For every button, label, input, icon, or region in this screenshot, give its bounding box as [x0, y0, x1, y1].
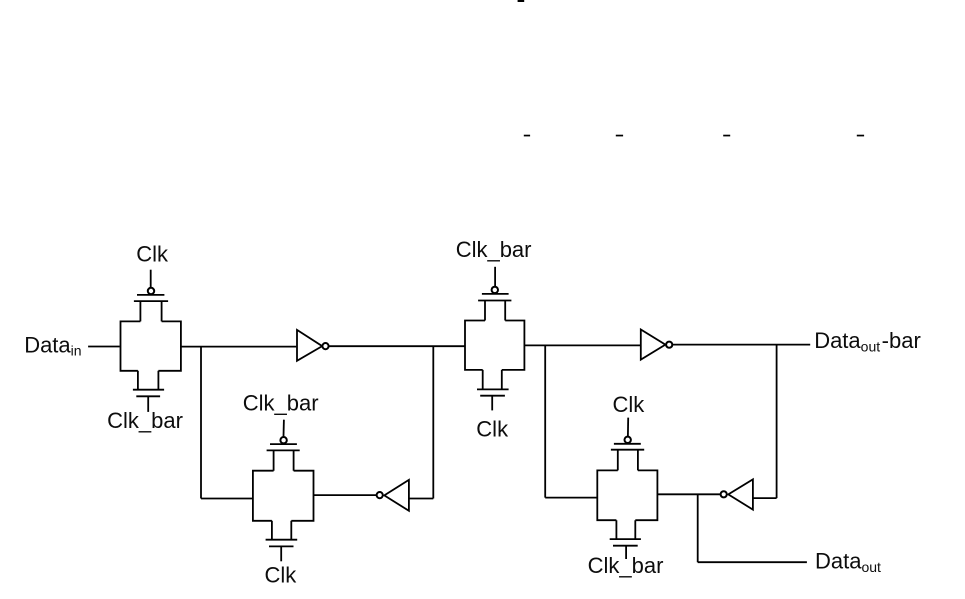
TG3 box	[465, 321, 524, 370]
TG1 Clk wire	[150, 270, 152, 287]
TG2 NMOS gate stub	[280, 546, 282, 561]
transmission gate TG4	[597, 418, 657, 559]
svg-text:Clk_bar: Clk_bar	[456, 237, 532, 262]
TG3 gate bubble	[492, 287, 498, 293]
wire feedback drop V2	[432, 346, 434, 498]
TG4 PMOS gate bar	[614, 443, 641, 445]
U4 bubble	[721, 491, 727, 497]
TG4 NMOS gate stub	[625, 546, 627, 559]
TG2 box	[253, 471, 314, 521]
transmission gate TG1	[121, 270, 181, 412]
U1 triangle	[297, 330, 322, 361]
wire Data_out lead	[698, 561, 807, 563]
wire TG3 to inverter U2	[524, 344, 640, 346]
TG1 NMOS legs	[138, 371, 159, 390]
TG1 box	[121, 321, 181, 370]
TG1 PMOS legs	[140, 301, 161, 321]
TG4 PMOS legs	[618, 450, 638, 471]
svg-text:Clk_bar: Clk_bar	[243, 390, 319, 415]
TG4 NMOS gate bar	[613, 545, 638, 547]
wire Data_in lead	[88, 346, 120, 348]
inverter U3	[377, 480, 409, 511]
U3 bubble	[377, 492, 383, 498]
wire TG4 to U4 bubble	[657, 493, 720, 495]
TG3 PMOS legs	[485, 301, 505, 321]
inverter U2	[641, 330, 673, 360]
wire V1 to TG2	[201, 498, 253, 500]
svg-text:Dataout-bar: Dataout-bar	[814, 328, 921, 354]
svg-text:Clk: Clk	[613, 392, 646, 417]
U2 bubble	[666, 342, 672, 348]
TG3 NMOS channel bar	[477, 388, 509, 390]
svg-text:Clk: Clk	[476, 417, 509, 442]
TG3 PMOS channel bar	[478, 300, 511, 302]
svg-text:Clk: Clk	[265, 562, 298, 587]
U1 bubble	[322, 343, 328, 349]
TG2 PMOS legs	[274, 450, 294, 470]
svg-text:Dataout: Dataout	[815, 548, 881, 574]
TG2 NMOS gate bar	[269, 545, 294, 547]
TG1 PMOS gate bar	[137, 294, 164, 296]
TG2 NMOS channel bar	[266, 539, 298, 541]
wire TG1 to inverter U1	[181, 346, 296, 348]
wire U3 input	[409, 498, 433, 500]
svg-text:Clk: Clk	[136, 242, 169, 267]
TG2 gate bubble	[280, 437, 286, 443]
TG1 NMOS channel bar	[133, 389, 164, 391]
wire TG2 to U3 bubble	[314, 494, 377, 496]
TG1 NMOS gate stub	[147, 396, 149, 412]
inverter U4	[721, 479, 753, 509]
TG4 box	[597, 470, 657, 520]
TG1 gate bubble	[148, 288, 154, 294]
U2 triangle	[641, 330, 666, 360]
wire U4 input	[753, 497, 777, 499]
TG3 NMOS legs	[483, 370, 502, 390]
TG3 NMOS gate bar	[480, 395, 505, 397]
TG3 NMOS gate stub	[491, 396, 493, 411]
transmission gate TG2	[253, 420, 314, 562]
transmission gate TG3	[465, 267, 524, 411]
wire feedback drop V1	[200, 347, 202, 499]
U4 triangle	[728, 479, 753, 509]
wire feedback drop V4	[776, 345, 778, 499]
wire Data_out drop	[697, 494, 699, 562]
TG2 NMOS legs	[272, 521, 291, 540]
cropped text fragment top	[518, 0, 525, 2]
TG3 PMOS gate bar	[482, 293, 509, 295]
wire feedback drop V3	[544, 345, 546, 497]
svg-text:Clk_bar: Clk_bar	[588, 553, 664, 578]
TG4 NMOS channel bar	[610, 538, 641, 540]
wire U2 to Data_out-bar	[672, 344, 810, 346]
wire U1 to TG3	[329, 345, 465, 347]
overbar dash 2	[616, 135, 623, 137]
svg-text:Datain: Datain	[24, 332, 81, 358]
wire V3 to TG4	[545, 497, 597, 499]
inverter U1	[297, 330, 329, 361]
TG3 Clk_bar wire	[494, 267, 496, 286]
TG2 PMOS gate bar	[270, 443, 297, 445]
svg-text:Clk_bar: Clk_bar	[107, 408, 183, 433]
overbar dash 3	[723, 135, 730, 137]
TG4 PMOS channel bar	[611, 449, 644, 451]
U3 triangle	[384, 480, 409, 511]
TG4 Clk wire	[627, 418, 629, 436]
TG1 NMOS gate bar	[136, 395, 160, 397]
overbar dash 1	[524, 135, 530, 137]
TG2 PMOS channel bar	[267, 449, 300, 451]
TG2 Clk_bar wire	[283, 420, 285, 437]
TG4 NMOS legs	[616, 520, 635, 539]
TG4 gate bubble	[625, 437, 631, 443]
TG1 PMOS channel bar	[134, 300, 168, 302]
overbar dash 4	[857, 135, 864, 137]
